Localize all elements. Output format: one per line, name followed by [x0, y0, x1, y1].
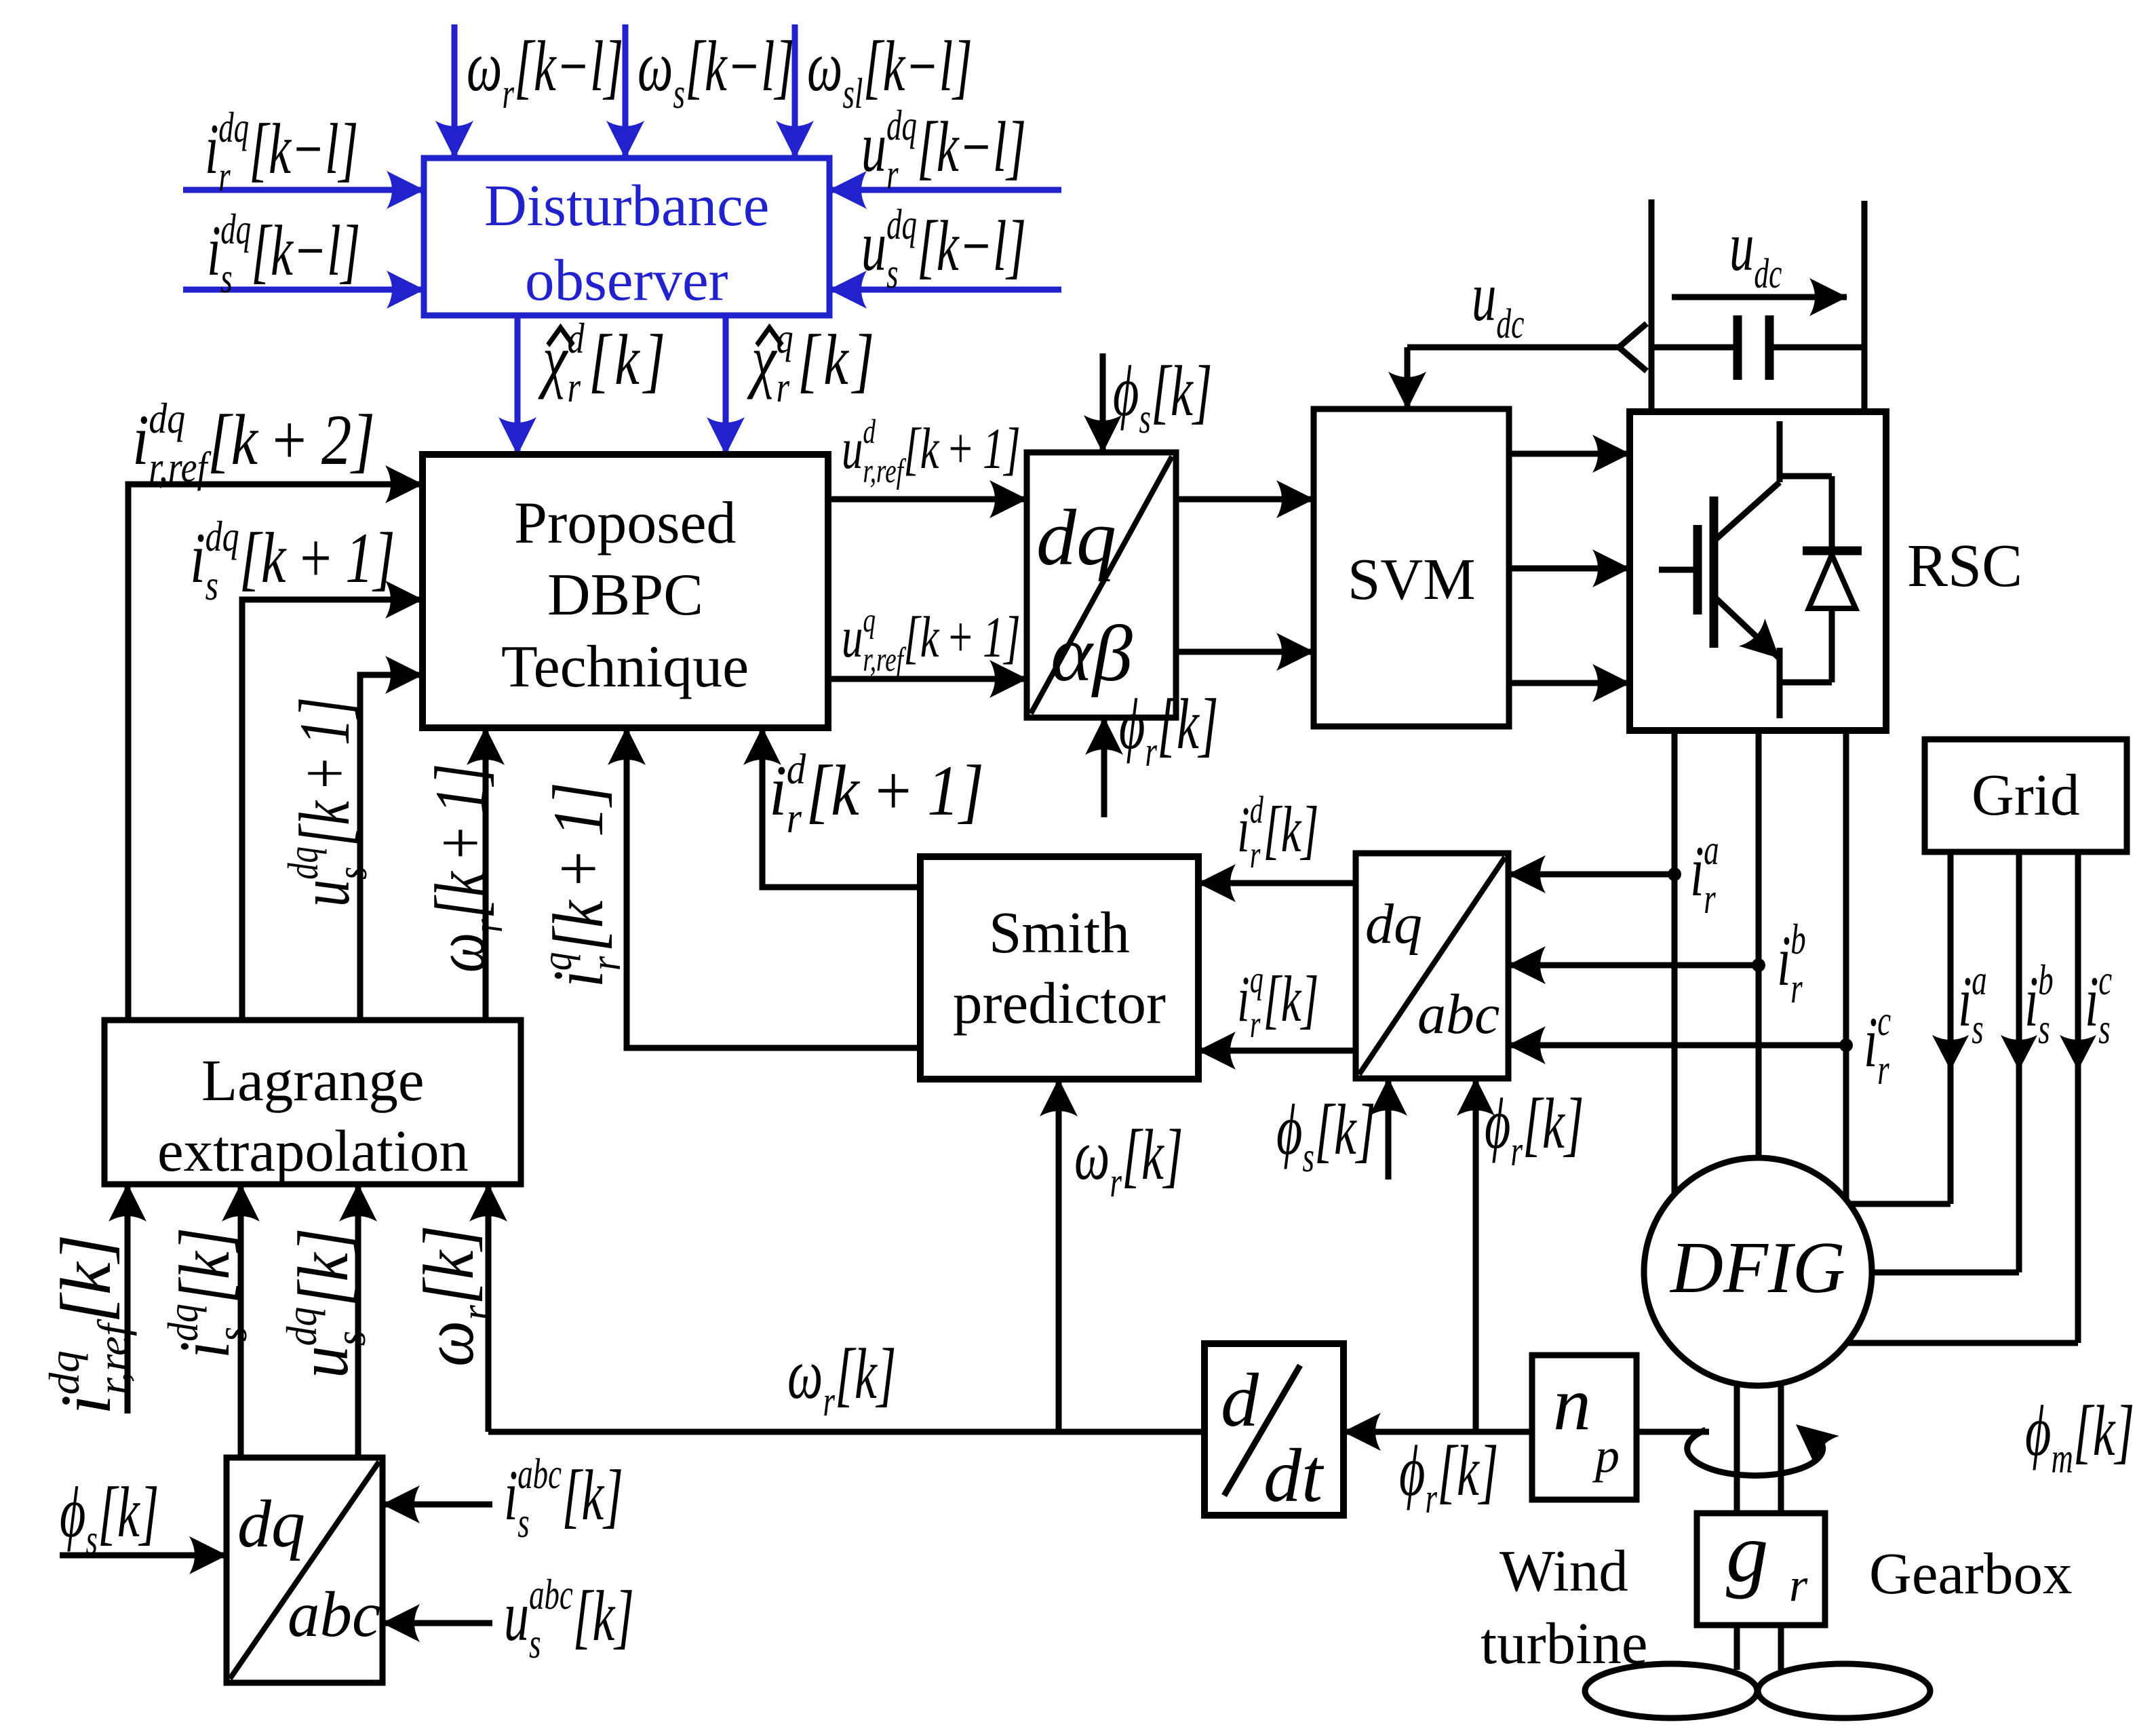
svg-text:DBPC: DBPC [547, 562, 703, 628]
svg-text:u: u [283, 1346, 363, 1378]
svg-text:Smith: Smith [989, 899, 1130, 965]
svg-text:[k−l]: [k−l] [917, 106, 1026, 187]
svg-text:u: u [842, 417, 863, 482]
svg-text:ϕ: ϕ [1119, 684, 1145, 764]
svg-text:r: r [1426, 1474, 1438, 1522]
svg-text:Wind: Wind [1500, 1538, 1628, 1603]
svg-text:k: k [614, 319, 640, 399]
svg-text:dq: dq [220, 205, 251, 253]
svg-text:1]: 1] [983, 417, 1021, 482]
svg-text:dt: dt [1263, 1434, 1325, 1518]
svg-text:r: r [452, 1305, 501, 1321]
svg-text:r,ref: r,ref [863, 451, 906, 490]
svg-text:m: m [2052, 1434, 2073, 1482]
svg-text:s: s [886, 249, 898, 297]
svg-text:2]: 2] [321, 401, 375, 480]
svg-text:d: d [568, 315, 585, 362]
svg-text:u: u [1472, 258, 1496, 336]
svg-text:i: i [132, 401, 149, 480]
svg-text:+: + [273, 401, 307, 480]
svg-text:[k−l]: [k−l] [251, 210, 360, 290]
svg-text:sl: sl [843, 69, 863, 117]
svg-text:i: i [165, 1341, 244, 1359]
svg-text:r: r [1110, 1158, 1122, 1206]
svg-text:[k: [k [903, 606, 940, 670]
svg-text:ϕ: ϕ [2025, 1390, 2051, 1470]
svg-text:dq: dq [149, 394, 185, 442]
svg-text:[k]: [k] [1122, 1114, 1183, 1194]
svg-text:i: i [2024, 961, 2039, 1041]
svg-text:Disturbance: Disturbance [484, 172, 769, 238]
svg-text:c: c [1877, 996, 1891, 1045]
svg-text:[k]: [k] [47, 1234, 126, 1323]
svg-text:r: r [218, 152, 231, 200]
svg-text:dq: dq [1036, 493, 1116, 582]
svg-text:predictor: predictor [953, 970, 1166, 1036]
svg-text:Gearbox: Gearbox [1869, 1540, 2073, 1606]
svg-text:r: r [787, 794, 802, 842]
svg-text:]: ] [642, 319, 665, 399]
svg-text:[k]: [k] [835, 1333, 897, 1414]
svg-text:abc: abc [1417, 983, 1500, 1046]
svg-text:+: + [949, 606, 973, 670]
svg-text:[k]: [k] [1314, 1089, 1376, 1169]
svg-text:+: + [539, 851, 619, 886]
svg-text:[: [ [589, 319, 613, 399]
svg-text:SVM: SVM [1348, 546, 1476, 612]
svg-text:1]: 1] [539, 782, 619, 837]
svg-text:Technique: Technique [501, 634, 749, 700]
svg-text:[k]: [k] [283, 1228, 363, 1307]
svg-text:RSC: RSC [1907, 532, 2022, 600]
svg-text:r: r [1790, 964, 1803, 1012]
svg-text:k: k [823, 319, 849, 399]
svg-text:abc: abc [288, 1578, 380, 1650]
svg-text:[k]: [k] [409, 1225, 488, 1305]
svg-text:r: r [777, 364, 790, 411]
svg-text:ω: ω [807, 26, 842, 106]
svg-text:[k: [k [806, 751, 860, 830]
svg-text:dq: dq [886, 200, 917, 248]
svg-text:+: + [286, 758, 365, 789]
svg-text:c: c [2098, 956, 2112, 1004]
svg-text:dq: dq [205, 513, 239, 560]
svg-text:r: r [1511, 1127, 1523, 1175]
svg-text:u: u [504, 1576, 529, 1656]
svg-text:1]: 1] [927, 751, 984, 830]
svg-text:i: i [190, 518, 205, 598]
svg-text:[k: [k [539, 899, 619, 952]
svg-text:dc: dc [1496, 300, 1524, 347]
svg-text:u: u [286, 880, 365, 907]
svg-text:dq: dq [278, 1307, 326, 1346]
svg-text:[k]: [k] [1157, 684, 1219, 764]
svg-text:r: r [465, 919, 512, 933]
svg-text:b: b [2038, 956, 2053, 1004]
svg-text:s: s [517, 1498, 529, 1546]
svg-text:s: s [220, 254, 232, 302]
svg-text:[k]: [k] [1263, 962, 1319, 1035]
svg-text:ϕ: ϕ [1276, 1089, 1302, 1169]
svg-text:n: n [1553, 1362, 1591, 1446]
svg-text:[k]: [k] [573, 1576, 635, 1656]
svg-text:q: q [532, 952, 581, 971]
svg-text:[k: [k [286, 800, 365, 846]
svg-text:b: b [1790, 915, 1805, 963]
svg-text:ω: ω [638, 26, 673, 106]
svg-text:[k: [k [420, 871, 501, 919]
svg-text:a: a [1704, 825, 1719, 874]
svg-text:s: s [2038, 1005, 2050, 1053]
svg-text:[k−l]: [k−l] [249, 109, 358, 189]
svg-text:i: i [1958, 961, 1972, 1041]
svg-text:ϕ: ϕ [1113, 351, 1139, 431]
svg-text:[k]: [k] [1151, 351, 1213, 431]
svg-text:dc: dc [1754, 250, 1782, 297]
svg-text:dq: dq [886, 101, 917, 149]
svg-text:d: d [1250, 788, 1263, 832]
svg-text:i: i [769, 751, 787, 830]
svg-text:ϕ: ϕ [1485, 1083, 1510, 1163]
svg-text:i: i [1777, 920, 1791, 1000]
svg-text:q: q [1250, 958, 1263, 1001]
svg-text:a: a [1972, 956, 1986, 1004]
svg-text:s: s [1972, 1005, 1983, 1053]
svg-text:Lagrange: Lagrange [201, 1047, 424, 1113]
svg-text:i: i [1237, 793, 1250, 865]
svg-text:+: + [949, 417, 973, 482]
svg-text:observer: observer [525, 247, 728, 313]
svg-text:[: [ [798, 319, 822, 399]
svg-text:1]: 1] [983, 606, 1021, 670]
svg-text:r: r [581, 956, 629, 971]
svg-text:r,ref: r,ref [863, 640, 906, 678]
svg-text:dq: dq [237, 1486, 305, 1561]
svg-text:i: i [207, 210, 221, 290]
svg-text:g: g [1726, 1506, 1769, 1600]
svg-text:i: i [47, 1395, 126, 1415]
svg-text:[k: [k [239, 518, 287, 598]
svg-text:[k]: [k] [2073, 1390, 2135, 1470]
svg-text:dq: dq [159, 1304, 206, 1342]
svg-text:s: s [529, 1619, 541, 1667]
svg-text:i: i [504, 1455, 518, 1535]
svg-text:r: r [1250, 833, 1261, 876]
svg-text:extrapolation: extrapolation [157, 1118, 469, 1184]
svg-text:ϕ: ϕ [60, 1472, 85, 1552]
svg-text:[k−l]: [k−l] [514, 26, 623, 106]
svg-text:r: r [1250, 1002, 1261, 1046]
svg-text:s: s [1139, 394, 1151, 442]
svg-text:[k]: [k] [562, 1455, 623, 1535]
svg-text:i: i [1237, 962, 1250, 1035]
svg-text:s: s [2098, 1005, 2110, 1053]
svg-text:ω: ω [787, 1333, 823, 1414]
svg-text:+: + [876, 751, 912, 830]
svg-text:ϕ: ϕ [1399, 1430, 1425, 1510]
svg-text:u: u [861, 106, 886, 187]
svg-text:turbine: turbine [1481, 1610, 1647, 1676]
svg-text:d: d [787, 745, 806, 794]
svg-text:[k−l]: [k−l] [917, 206, 1026, 286]
svg-text:ω: ω [420, 933, 501, 973]
svg-text:s: s [673, 69, 685, 117]
svg-text:]: ] [850, 319, 874, 399]
svg-text:χ: χ [747, 319, 777, 399]
svg-text:r: r [1704, 874, 1716, 922]
svg-text:u: u [842, 606, 863, 670]
svg-text:[k: [k [903, 417, 940, 482]
svg-text:u: u [861, 206, 886, 286]
svg-text:dq: dq [40, 1350, 88, 1395]
svg-text:s: s [328, 867, 376, 880]
svg-text:r: r [1789, 1559, 1808, 1612]
svg-text:1]: 1] [420, 764, 501, 814]
svg-text:r: r [1145, 727, 1158, 775]
svg-text:dq: dq [1365, 893, 1422, 956]
svg-text:+: + [300, 518, 332, 598]
svg-text:i: i [2085, 961, 2099, 1041]
svg-text:s: s [327, 1331, 374, 1346]
svg-text:p: p [1592, 1428, 1620, 1483]
svg-text:i: i [539, 971, 619, 988]
svg-text:[k]: [k] [165, 1227, 244, 1304]
svg-text:i: i [205, 109, 219, 189]
svg-text:s: s [86, 1515, 98, 1563]
svg-text:r: r [823, 1377, 836, 1425]
svg-text:r: r [1877, 1045, 1889, 1093]
svg-text:r: r [503, 69, 515, 117]
svg-text:ω: ω [1074, 1114, 1110, 1194]
svg-text:[k]: [k] [1263, 793, 1319, 865]
svg-text:χ: χ [538, 319, 568, 399]
svg-text:s: s [1303, 1133, 1314, 1181]
svg-text:s: s [205, 562, 218, 609]
svg-text:[k−l]: [k−l] [863, 26, 973, 106]
svg-text:d: d [1221, 1359, 1259, 1443]
svg-text:1]: 1] [286, 697, 365, 745]
svg-text:abc: abc [529, 1570, 573, 1618]
svg-text:abc: abc [517, 1449, 562, 1498]
svg-text:s: s [208, 1327, 255, 1342]
svg-text:dq: dq [218, 103, 249, 151]
svg-text:ω: ω [409, 1321, 488, 1367]
svg-text:[k−l]: [k−l] [685, 26, 794, 106]
svg-text:DFIG: DFIG [1669, 1228, 1845, 1308]
svg-text:i: i [1690, 831, 1704, 911]
svg-text:q: q [777, 315, 793, 362]
svg-text:r,ref: r,ref [149, 443, 212, 491]
svg-text:u: u [1729, 208, 1754, 286]
svg-text:+: + [420, 827, 501, 859]
svg-text:dq: dq [279, 846, 328, 880]
svg-text:q: q [863, 600, 876, 639]
svg-text:r,ref: r,ref [89, 1319, 137, 1395]
svg-text:[k]: [k] [1523, 1083, 1584, 1163]
svg-text:Proposed: Proposed [514, 490, 737, 556]
svg-text:[k]: [k] [98, 1472, 159, 1552]
svg-text:r: r [568, 364, 581, 411]
svg-text:Grid: Grid [1972, 762, 2079, 827]
svg-text:[k]: [k] [1437, 1430, 1499, 1510]
svg-text:1]: 1] [345, 518, 395, 598]
svg-text:d: d [863, 412, 876, 450]
svg-text:i: i [1864, 1002, 1878, 1082]
svg-text:ω: ω [467, 26, 502, 106]
svg-text:[k: [k [208, 401, 259, 480]
svg-text:r: r [886, 150, 899, 198]
